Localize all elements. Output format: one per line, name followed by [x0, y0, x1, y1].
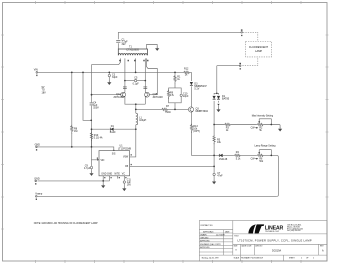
wire C5 link left: [125, 80, 134, 82]
svg-text:CW: CW: [251, 159, 256, 161]
svg-text:LAMP: LAMP: [255, 49, 262, 53]
wire row A intensity: [214, 125, 280, 127]
junction emitter center: [135, 103, 137, 105]
wire row B lamp range: [214, 155, 278, 196]
logo address block: [287, 224, 303, 233]
resistor R4 row B: [234, 154, 241, 156]
wire C6 stem: [91, 160, 93, 171]
capacitor C5: [134, 79, 136, 81]
svg-text:R4: R4: [236, 151, 240, 154]
svg-text:Phone: (408) 432-1900: Phone: (408) 432-1900: [287, 228, 303, 230]
node GND2 terminal: [34, 178, 40, 185]
junction row B / R5: [213, 155, 215, 157]
svg-text:R12: R12: [184, 68, 189, 71]
svg-text:SCALE: SCALE: [234, 257, 240, 260]
wire RC network stem up: [174, 72, 176, 88]
svg-text:5.1k: 5.1k: [236, 158, 241, 161]
wire GND row: [38, 147, 114, 151]
junction emitter / R7 row: [135, 109, 137, 111]
svg-text:CTX110605: CTX110605: [126, 49, 139, 52]
diode D1 lamp left: [213, 96, 216, 99]
svg-text:TECHNOLOGY: TECHNOLOGY: [265, 231, 280, 233]
junction L1 / VSW: [135, 128, 137, 130]
junction FB / C7: [213, 166, 215, 168]
svg-text:5k: 5k: [259, 130, 262, 132]
junction rail / Q1 base: [91, 94, 93, 96]
fluorescent lamp dashed box: [246, 42, 272, 57]
wire VC dim bottom row: [38, 195, 277, 197]
junction C5 link left: [124, 80, 126, 82]
svg-text:B: B: [236, 250, 238, 252]
dashed lamp connections: [242, 32, 271, 65]
svg-text:750Ω: 750Ω: [165, 111, 171, 114]
junction RC network / R7 row: [174, 109, 176, 111]
node VIN terminal: [34, 69, 46, 95]
size cage dwg row: [234, 245, 325, 253]
ground C7: [212, 179, 216, 184]
svg-text:VIN: VIN: [101, 160, 105, 162]
svg-text:krw 7/30/99: krw 7/30/99: [216, 234, 225, 237]
wire dashed lamp top: [243, 32, 258, 41]
wire C1 vertical to transformer: [117, 32, 119, 49]
svg-text:Vramp: Vramp: [35, 193, 43, 196]
transformer T1: [118, 46, 148, 62]
resistor R12: [183, 71, 190, 73]
wire left rail x91.5 through C4: [91, 95, 93, 147]
wire HV top: lamp high line: [118, 31, 241, 33]
wire x214.5 FB junction to C7: [213, 155, 215, 179]
potentiometer R6 lamp range: [251, 145, 277, 164]
svg-text:CHECKED: CHECKED: [200, 237, 209, 239]
node GND terminal: [35, 143, 41, 150]
wire x214.5 vertical R5 chain: [213, 125, 215, 156]
wire x91.5 down to U1 VIN: [92, 147, 100, 160]
wire FB row: [130, 165, 215, 167]
svg-text:CONTRACT NO.: CONTRACT NO.: [200, 224, 213, 227]
svg-text:Monday, July 30, 1999: Monday, July 30, 1999: [202, 258, 219, 260]
LT logo mark: [248, 224, 264, 233]
wire lamp low line: [217, 65, 240, 67]
svg-text:Lamp Range Setting: Lamp Range Setting: [255, 145, 277, 148]
potentiometer R2 max intensity: [251, 114, 274, 132]
resistor R10 sense: [90, 132, 92, 141]
wire T1 center tap pin: [135, 58, 137, 72]
svg-text:17k: 17k: [170, 94, 175, 97]
resistor R11: [174, 75, 176, 84]
wire R8 vertical: [71, 72, 73, 146]
resistor R7: [161, 108, 168, 110]
wire U1 gnd to ground sym: [102, 181, 104, 183]
capacitor C7: [213, 173, 215, 175]
ground diode pair: [216, 107, 220, 112]
wire T1 base pin right jog: [146, 58, 157, 94]
svg-text:GND: GND: [107, 174, 112, 176]
wire left rail x91.5 upper: [91, 65, 93, 95]
wire L1 bottom to VSW: [130, 125, 136, 157]
svg-text:50k: 50k: [259, 161, 264, 163]
ground T1 secondary: [155, 46, 159, 51]
ground C6: [89, 171, 93, 176]
wire zener to Q3 collector: [190, 86, 192, 107]
svg-text:CW: CW: [251, 128, 256, 130]
svg-text:A: A: [322, 250, 324, 253]
capacitor C3: [108, 74, 110, 76]
wire schottky diode row: [92, 128, 136, 130]
svg-text:MMBT3904: MMBT3904: [196, 110, 209, 113]
wire C3 stem: [108, 72, 110, 74]
svg-text:1: 1: [313, 258, 315, 260]
svg-text:1M: 1M: [74, 130, 77, 133]
ground C3: [107, 80, 111, 85]
junction pot R2 wiper: [270, 124, 272, 126]
svg-text:SIZE: SIZE: [234, 246, 239, 248]
ground row A: [278, 127, 282, 132]
svg-text:VIN: VIN: [34, 69, 38, 72]
svg-text:10k: 10k: [217, 141, 222, 144]
svg-text:DC019A: DC019A: [272, 250, 281, 253]
svg-text:FLUORESCENT: FLUORESCENT: [249, 45, 268, 49]
junction GND row / R8: [71, 146, 73, 148]
transistor Q3: [188, 107, 208, 113]
wire C3 to ground: [108, 77, 110, 80]
svg-text:DWG NO: DWG NO: [255, 246, 263, 248]
junction VIN bus / C3: [108, 72, 110, 74]
junction GND row / rail: [91, 146, 93, 148]
svg-text:ENGINEER QUAL CONTR: ENGINEER QUAL CONTR: [200, 243, 221, 246]
capacitor CQ1 base mark: [123, 87, 127, 88]
LT swoosh: [248, 224, 255, 233]
capacitor C6: [90, 166, 92, 168]
svg-text:D1: D1: [111, 125, 115, 128]
title block left column: [232, 221, 234, 256]
svg-text:100µH: 100µH: [139, 119, 146, 122]
svg-text:S/S: S/S: [112, 154, 116, 156]
resistor R9: [167, 90, 169, 99]
svg-text:APPROVED: APPROVED: [200, 240, 210, 243]
resistor R5: [213, 135, 215, 144]
wire VIN bus: [38, 71, 183, 73]
svg-text:1k: 1k: [185, 73, 188, 76]
wire transformer sec to ground: [147, 45, 158, 50]
junction VIN bus / T1 center tap: [135, 72, 137, 74]
svg-text:NOTE: GROUND LCD HOUSING OF FL: NOTE: GROUND LCD HOUSING OF FLUORESCENT …: [34, 222, 98, 225]
junction VIN bus / R8: [71, 72, 73, 74]
capacitor C1 ballast: [116, 38, 128, 46]
wire U1 gnd pins: [103, 176, 109, 181]
svg-text:SHEET: SHEET: [289, 258, 295, 260]
svg-text:16V: 16V: [127, 184, 132, 186]
title block outer: [199, 221, 327, 262]
wire GND2 row: [38, 180, 110, 182]
wire bus drop x83 jog: [83, 72, 91, 120]
junction pot R6 wiper: [270, 155, 272, 157]
node lamp low terminal: [239, 63, 241, 64]
title block small text left: [200, 224, 230, 260]
svg-text:1: 1: [301, 258, 303, 260]
capacitor CQ2 base mark: [143, 87, 147, 88]
svg-text:C5: C5: [134, 76, 138, 79]
svg-text:TITLE: TITLE: [234, 236, 239, 238]
wire lamp low drop: [216, 66, 218, 94]
wire feedback row right: [168, 108, 189, 110]
wire T1 collector pin left: [124, 58, 126, 92]
svg-text:R7: R7: [166, 105, 170, 108]
svg-text:BAT85: BAT85: [222, 97, 230, 100]
wire T1 collector pin right: [144, 58, 146, 92]
junction VIN bus / R11: [174, 72, 176, 74]
svg-text:DRAWN: DRAWN: [200, 234, 207, 237]
svg-text:33pF: 33pF: [112, 76, 118, 79]
svg-text:GND: GND: [101, 174, 106, 176]
junction U1 GND pins: [102, 180, 104, 182]
diode D2 1N4148 row B: [219, 154, 228, 161]
wire Q1 emitter: [125, 97, 145, 104]
junction VIN bus / C4 branch: [82, 72, 84, 74]
svg-text:FILENAME: F1070CM8.SCH: FILENAME: F1070CM8.SCH: [241, 257, 264, 260]
resistor R3 row A: [224, 123, 231, 125]
svg-text:4.7µF: 4.7µF: [84, 167, 91, 170]
capacitor C11: [123, 181, 125, 183]
svg-text:LT1070CM, POWER SUPPLY, CCFL,: LT1070CM, POWER SUPPLY, CCFL, SINGLE LAM…: [238, 239, 312, 243]
wire C5 link right: [137, 80, 145, 82]
svg-text:FB: FB: [125, 166, 128, 168]
wire U1 VC pin to C11: [123, 176, 125, 186]
svg-text:Max Intensity Setting: Max Intensity Setting: [252, 114, 274, 117]
svg-text:1N4148: 1N4148: [219, 158, 228, 161]
svg-text:0.1Ω 4A: 0.1Ω 4A: [94, 136, 103, 139]
svg-text:(OPT): (OPT): [193, 130, 200, 133]
svg-text:1630 McCarthy Blvd.: 1630 McCarthy Blvd.: [287, 224, 302, 227]
wire Q1 base row: [92, 94, 121, 96]
svg-text:B140: B140: [110, 131, 116, 134]
capacitor C4 series: [90, 101, 100, 109]
svg-text:REV: REV: [320, 246, 324, 248]
inductor L1: [136, 113, 147, 125]
svg-text:APPROVALS: APPROVALS: [203, 231, 214, 234]
svg-text:VSW: VSW: [123, 157, 129, 159]
ground C11: [122, 186, 126, 191]
junction rail / D1 row: [91, 128, 93, 130]
title block right section lines: [233, 234, 327, 244]
wire VIN bus right of R12: [190, 72, 192, 81]
junction lamp low / diode pair: [216, 92, 218, 94]
svg-text:GND: GND: [35, 143, 41, 146]
wire sense resistor section: [91, 129, 93, 147]
wire emitter feedback row: [136, 108, 161, 110]
resistor R13 Q3 emitter: [190, 124, 192, 133]
svg-text:22pF: 22pF: [183, 95, 189, 98]
wire RC network stem down: [174, 103, 176, 110]
junction row A left: [213, 124, 215, 126]
svg-text:100V: 100V: [93, 106, 99, 109]
diode D2 lamp right: [217, 96, 220, 99]
svg-text:Fax: (408) 434-0507: Fax: (408) 434-0507: [287, 230, 301, 232]
junction rail jog: [90, 119, 92, 121]
svg-text:VC: VC: [122, 174, 126, 176]
node Vramp terminal: [35, 193, 43, 200]
wire RC network top edge: [169, 88, 182, 94]
wire Q3 emitter chain: [192, 112, 215, 155]
svg-text:APPROVED: APPROVED: [200, 246, 210, 249]
wire RC network bottom edge: [169, 97, 182, 103]
T1 pin numbers: [119, 60, 148, 62]
svg-text:LT1070CM8: LT1070CM8: [118, 147, 132, 150]
svg-text:CAGE CODE: CAGE CODE: [241, 245, 252, 248]
transistor Q2: [145, 92, 164, 99]
ground U1 gnd pins: [101, 183, 105, 188]
svg-text:5.1V: 5.1V: [194, 88, 199, 91]
wire U1 nite stub: [117, 176, 119, 179]
node lamp high terminal: [241, 29, 243, 30]
IC U1: [97, 144, 132, 178]
svg-text:NITE: NITE: [115, 174, 121, 176]
LT seven: [255, 224, 265, 233]
wire emitter center drop: [135, 104, 137, 113]
svg-text:ZDT1048: ZDT1048: [153, 96, 164, 99]
svg-text:OF: OF: [306, 258, 308, 260]
svg-text:47nF: 47nF: [217, 175, 223, 178]
svg-text:3kV: 3kV: [122, 43, 127, 46]
resistor R8: [71, 125, 73, 134]
diode D4 schottky B140: [110, 125, 116, 134]
wire Q2 base row: [149, 94, 157, 96]
scale sheet row: [234, 257, 315, 260]
svg-text:ZDT1048: ZDT1048: [114, 96, 125, 99]
transistor Q1: [114, 92, 126, 99]
wire T1 pin1 jog to left rail: [92, 58, 121, 64]
U1 pin numbers: [97, 154, 132, 178]
junction C5 link right: [145, 80, 147, 82]
zener D3: [190, 82, 208, 91]
svg-text:0.1µF: 0.1µF: [133, 83, 140, 86]
wire dashed lamp bottom: [242, 57, 257, 66]
wire diode pair branches: [214, 93, 218, 124]
svg-text:18V: 18V: [42, 91, 47, 94]
capacitor C10: [180, 94, 182, 96]
